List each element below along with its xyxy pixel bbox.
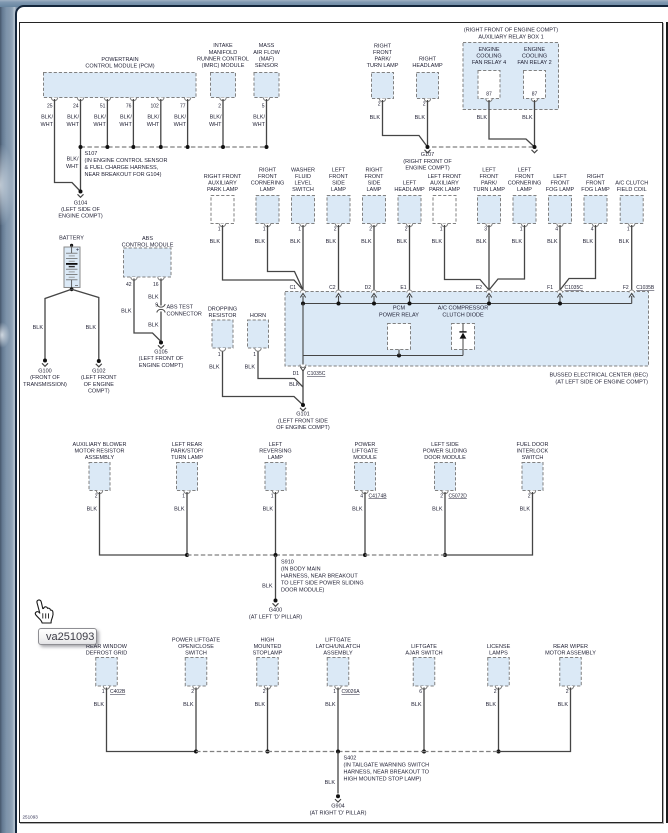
svg-text:(FRONT OF: (FRONT OF xyxy=(30,375,60,381)
svg-text:251093: 251093 xyxy=(23,815,39,820)
svg-text:BLK: BLK xyxy=(290,239,301,245)
svg-text:2: 2 xyxy=(95,494,98,500)
svg-text:POWERTRAIN: POWERTRAIN xyxy=(101,57,138,63)
ground G102 xyxy=(81,359,117,395)
svg-text:FRONT: FRONT xyxy=(258,174,278,180)
horn H1 xyxy=(245,313,269,370)
svg-text:POWER SLIDING: POWER SLIDING xyxy=(423,449,467,455)
svg-text:HORN: HORN xyxy=(250,313,266,319)
wire battery negative to G102 xyxy=(72,289,99,361)
svg-text:1: 1 xyxy=(182,494,185,500)
splice S402 xyxy=(336,750,430,783)
left front cornering lamp xyxy=(508,168,542,245)
svg-text:CORNERING: CORNERING xyxy=(251,181,285,187)
svg-text:REAR WIPER: REAR WIPER xyxy=(553,644,588,650)
svg-text:POWER RELAY: POWER RELAY xyxy=(379,313,419,319)
svg-text:WHT: WHT xyxy=(119,122,132,128)
wire right front side lamp to BEC D2 xyxy=(373,225,375,290)
application background top bar xyxy=(0,0,668,7)
svg-text:MODULE: MODULE xyxy=(353,455,377,461)
svg-text:BLK: BLK xyxy=(263,506,274,512)
wire BEC D1 to G101 xyxy=(302,370,304,405)
intake manifold runner control (IMRC) module xyxy=(197,43,249,128)
svg-text:(LEFT SIDE OF: (LEFT SIDE OF xyxy=(61,207,100,213)
svg-text:42: 42 xyxy=(126,282,132,288)
svg-text:DEFROST GRID: DEFROST GRID xyxy=(86,651,127,657)
svg-text:(AT LEFT 'D' PILLAR): (AT LEFT 'D' PILLAR) xyxy=(249,615,302,621)
svg-text:2: 2 xyxy=(218,104,221,110)
row3 ground bus dashed segment 2 xyxy=(276,554,366,556)
svg-text:ASSEMBLY: ASSEMBLY xyxy=(85,455,115,461)
svg-text:SIDE: SIDE xyxy=(332,181,345,187)
svg-text:FOG LAMP: FOG LAMP xyxy=(581,187,610,193)
high mounted stop lamp xyxy=(253,638,283,708)
svg-text:ENGINE: ENGINE xyxy=(524,47,545,53)
svg-text:COOLING: COOLING xyxy=(476,54,501,60)
BEC entry F1 connector C1035C xyxy=(547,285,583,304)
svg-text:C1035B: C1035B xyxy=(636,285,655,291)
svg-text:AUXILIARY BLOWER: AUXILIARY BLOWER xyxy=(73,442,127,448)
svg-text:2: 2 xyxy=(405,227,408,233)
svg-text:BLK: BLK xyxy=(121,309,132,315)
BEC exit D1 connector C1035C xyxy=(289,365,326,389)
liftgate ajar switch xyxy=(405,644,442,708)
svg-text:RIGHT: RIGHT xyxy=(365,168,383,174)
svg-text:ENGINE COMPT): ENGINE COMPT) xyxy=(405,165,449,171)
application background left strip xyxy=(0,0,16,833)
left side power sliding door module xyxy=(423,442,467,512)
svg-text:RESISTOR: RESISTOR xyxy=(208,313,236,319)
wire fan relay 4 pin 87 to ground xyxy=(489,100,535,147)
svg-text:BLK: BLK xyxy=(210,239,221,245)
svg-text:LEFT: LEFT xyxy=(332,168,346,174)
ground tie dashed link G107 xyxy=(432,146,535,148)
left front fog lamp xyxy=(546,174,575,245)
svg-text:BLK: BLK xyxy=(255,702,266,708)
BEC entry E2 xyxy=(476,285,492,304)
splice S910 xyxy=(274,553,364,594)
svg-text:RIGHT FRONT: RIGHT FRONT xyxy=(204,174,242,180)
svg-text:S107: S107 xyxy=(85,151,98,157)
svg-text:2: 2 xyxy=(566,689,569,695)
wire horn to G101 xyxy=(258,352,303,388)
svg-text:STOPLAMP: STOPLAMP xyxy=(253,651,283,657)
svg-text:BLK: BLK xyxy=(255,239,266,245)
wire fuel door interlock switch to row3 ground bus xyxy=(445,492,533,555)
svg-text:51: 51 xyxy=(100,104,106,110)
svg-text:HARNESS, NEAR BREAKOUT: HARNESS, NEAR BREAKOUT xyxy=(281,574,358,580)
svg-text:FAN RELAY 2: FAN RELAY 2 xyxy=(517,60,551,66)
power liftgate module xyxy=(352,442,387,512)
svg-text:FRONT: FRONT xyxy=(551,181,571,187)
svg-text:BLK: BLK xyxy=(486,702,497,708)
wire auxiliary blower motor resistor to row3 ground bus xyxy=(100,492,188,555)
wire left front fog lamp to BEC F1 xyxy=(559,225,561,290)
svg-text:BLK/: BLK/ xyxy=(120,115,132,121)
svg-text:AUXILIARY RELAY BOX 1: AUXILIARY RELAY BOX 1 xyxy=(478,35,543,41)
svg-text:D1: D1 xyxy=(293,371,300,377)
wire left front auxiliary park lamp to BEC E2 xyxy=(445,225,490,290)
svg-text:24: 24 xyxy=(73,104,79,110)
svg-text:AIR FLOW: AIR FLOW xyxy=(253,50,280,56)
svg-text:MOTOR RESISTOR: MOTOR RESISTOR xyxy=(75,449,125,455)
svg-text:RIGHT: RIGHT xyxy=(419,57,437,63)
svg-text:WHT: WHT xyxy=(66,122,79,128)
svg-text:HARNESS, NEAR BREAKOUT TO: HARNESS, NEAR BREAKOUT TO xyxy=(344,770,430,776)
svg-text:OF ENGINE COMPT): OF ENGINE COMPT) xyxy=(276,425,330,431)
wire ABS pin 42 to G105 xyxy=(121,279,161,342)
right front side lamp xyxy=(361,168,385,245)
svg-text:FRONT: FRONT xyxy=(586,181,606,187)
svg-text:LEFT SIDE: LEFT SIDE xyxy=(431,442,459,448)
battery B1 xyxy=(59,236,84,288)
svg-text:2: 2 xyxy=(494,689,497,695)
wire splice S910 to G400 xyxy=(262,555,275,601)
svg-text:NEAR BREAKOUT FOR G104): NEAR BREAKOUT FOR G104) xyxy=(85,172,162,178)
svg-text:BLK: BLK xyxy=(432,239,443,245)
svg-text:BLK/: BLK/ xyxy=(147,115,159,121)
svg-text:TURN LAMP: TURN LAMP xyxy=(367,63,399,69)
BEC entry C2 xyxy=(329,285,341,304)
wire left reversing lamp to splice S910 xyxy=(275,492,277,555)
svg-text:(AT RIGHT 'D' PILLAR): (AT RIGHT 'D' PILLAR) xyxy=(310,811,367,817)
svg-text:PARK LAMP: PARK LAMP xyxy=(207,187,238,193)
splice S107 bus xyxy=(79,145,269,178)
svg-text:1: 1 xyxy=(298,227,301,233)
svg-text:FRONT: FRONT xyxy=(515,174,535,180)
right front cornering lamp xyxy=(251,168,285,245)
svg-text:6: 6 xyxy=(419,689,422,695)
svg-text:1: 1 xyxy=(440,227,443,233)
fuel door interlock switch xyxy=(517,442,549,512)
svg-text:LAMP: LAMP xyxy=(517,187,532,193)
wire splice S402 to G904 xyxy=(325,752,338,794)
wire left front side lamp to BEC C2 xyxy=(338,225,340,290)
svg-text:BLK: BLK xyxy=(476,239,487,245)
svg-text:(IN TAILGATE WARNING SWITCH: (IN TAILGATE WARNING SWITCH xyxy=(344,763,430,769)
wire MAF pin 5 to S107 bus xyxy=(266,99,268,147)
svg-text:SIDE: SIDE xyxy=(368,181,381,187)
svg-text:FUEL DOOR: FUEL DOOR xyxy=(517,442,549,448)
left rear park/stop/turn lamp xyxy=(171,442,204,512)
svg-text:HEADLAMP: HEADLAMP xyxy=(412,63,443,69)
PCM pin 51 xyxy=(93,104,106,129)
wire ABS test connector to G105 xyxy=(148,312,161,343)
svg-text:MOUNTED: MOUNTED xyxy=(254,644,282,650)
svg-text:G105: G105 xyxy=(154,350,167,356)
svg-text:BLK: BLK xyxy=(33,325,44,331)
svg-text:WHT: WHT xyxy=(40,122,53,128)
wire right front park/turn lamp to G107 xyxy=(383,100,428,147)
svg-text:C9026A: C9026A xyxy=(342,689,361,695)
svg-text:BLK: BLK xyxy=(520,506,531,512)
svg-text:87: 87 xyxy=(532,92,538,98)
ground G101 xyxy=(276,403,330,431)
wire right front auxiliary park lamp to BEC C1 xyxy=(223,225,304,290)
svg-text:FIELD COIL: FIELD COIL xyxy=(617,187,647,193)
PCM pin 25 xyxy=(40,104,53,129)
svg-text:1: 1 xyxy=(271,494,274,500)
svg-text:BLK/: BLK/ xyxy=(41,115,53,121)
svg-text:G107: G107 xyxy=(421,152,434,158)
power liftgate open/close switch xyxy=(172,638,221,708)
wire IMRC pin 2 to S107 bus xyxy=(222,99,224,147)
svg-text:COOLING: COOLING xyxy=(522,54,547,60)
left front side lamp xyxy=(326,168,350,245)
engine cooling fan relay 2 xyxy=(517,47,551,121)
BEC entry E1 xyxy=(400,285,412,304)
svg-text:BLK: BLK xyxy=(148,323,159,329)
svg-text:DROPPING: DROPPING xyxy=(208,307,237,313)
svg-text:CONTROL MODULE (PCM): CONTROL MODULE (PCM) xyxy=(85,64,154,70)
svg-text:BLK: BLK xyxy=(558,702,569,708)
svg-text:LAMPS: LAMPS xyxy=(489,651,508,657)
svg-text:E1: E1 xyxy=(400,285,406,291)
svg-text:1: 1 xyxy=(333,689,336,695)
svg-text:TRANSMISSION): TRANSMISSION) xyxy=(23,382,67,388)
svg-text:BLK: BLK xyxy=(583,239,594,245)
svg-text:BLK: BLK xyxy=(183,702,194,708)
svg-text:16: 16 xyxy=(153,282,159,288)
svg-text:CORNERING: CORNERING xyxy=(508,181,542,187)
svg-text:BLK/: BLK/ xyxy=(253,115,265,121)
svg-text:ENGINE: ENGINE xyxy=(478,47,499,53)
right front fog lamp xyxy=(581,174,610,245)
a/c compressor clutch diode D1 xyxy=(438,306,488,356)
wire dropping resistor to G101 xyxy=(223,352,304,406)
wire left rear park/stop/turn lamp to row3 ground bus xyxy=(185,492,189,557)
svg-text:25: 25 xyxy=(47,104,53,110)
svg-text:FRONT: FRONT xyxy=(480,174,500,180)
BEC internal ground bus xyxy=(301,302,632,306)
svg-text:LEFT REAR: LEFT REAR xyxy=(172,442,202,448)
svg-text:(MAF): (MAF) xyxy=(259,56,274,62)
svg-text:HIGH MOUNTED STOP LAMP): HIGH MOUNTED STOP LAMP) xyxy=(344,777,422,783)
rear window defrost grid xyxy=(86,644,128,708)
svg-text:PARK/STOP/: PARK/STOP/ xyxy=(171,449,204,455)
rear wiper motor assembly xyxy=(545,644,596,708)
svg-text:76: 76 xyxy=(126,104,132,110)
svg-text:77: 77 xyxy=(180,104,186,110)
svg-text:BLK: BLK xyxy=(87,506,98,512)
BEC entry C1 xyxy=(290,285,306,304)
svg-text:BLK: BLK xyxy=(361,239,372,245)
BEC internal wire to D1 xyxy=(302,304,304,367)
svg-text:PARK/: PARK/ xyxy=(481,181,498,187)
svg-text:DOOR MODULE): DOOR MODULE) xyxy=(281,588,325,594)
svg-text:1: 1 xyxy=(520,227,523,233)
svg-text:LIFTGATE: LIFTGATE xyxy=(352,449,378,455)
wire right front cornering lamp to BEC C1 xyxy=(268,225,304,290)
svg-text:MASS: MASS xyxy=(259,43,275,49)
svg-text:POWER: POWER xyxy=(355,442,376,448)
wire washer fluid level switch to BEC C1 xyxy=(302,225,304,290)
ground G104 xyxy=(58,190,102,220)
svg-text:1: 1 xyxy=(102,689,105,695)
svg-text:REVERSING: REVERSING xyxy=(259,449,291,455)
svg-text:LEFT: LEFT xyxy=(482,168,496,174)
svg-text:2: 2 xyxy=(369,227,372,233)
svg-text:FRONT: FRONT xyxy=(329,174,349,180)
svg-text:WHT: WHT xyxy=(93,122,106,128)
wire power liftgate module to row3 ground bus xyxy=(363,492,367,557)
svg-text:PARK/: PARK/ xyxy=(374,57,391,63)
svg-text:ABS: ABS xyxy=(142,236,153,242)
svg-text:1: 1 xyxy=(218,352,221,358)
svg-text:C5072D: C5072D xyxy=(449,494,468,500)
svg-text:RUNNER CONTROL: RUNNER CONTROL xyxy=(197,56,249,62)
svg-text:102: 102 xyxy=(150,104,159,110)
svg-text:4: 4 xyxy=(555,227,558,233)
svg-text:CLUTCH DIODE: CLUTCH DIODE xyxy=(442,313,484,319)
svg-text:BLK/: BLK/ xyxy=(210,115,222,121)
svg-text:BLK: BLK xyxy=(209,364,220,370)
washer fluid level switch xyxy=(290,168,315,245)
svg-text:LATCH/UNLATCH: LATCH/UNLATCH xyxy=(316,644,361,650)
right headlamp xyxy=(412,57,443,122)
svg-text:(LEFT FRONT SIDE: (LEFT FRONT SIDE xyxy=(278,418,328,424)
license lamps xyxy=(486,644,511,708)
PCM pin 102 xyxy=(147,104,160,129)
svg-text:BLK: BLK xyxy=(352,506,363,512)
ground G107 right stud xyxy=(532,145,538,153)
wire license lamps to row4 ground bus xyxy=(497,688,501,754)
row4 ground bus dashed segment 4 xyxy=(424,751,499,753)
BEC entry F2 connector C1035B xyxy=(623,285,655,304)
svg-text:LIFTGATE: LIFTGATE xyxy=(325,638,351,644)
svg-text:F2: F2 xyxy=(623,285,629,291)
svg-text:S402: S402 xyxy=(344,756,357,762)
svg-text:(IN ENGINE CONTROL SENSOR: (IN ENGINE CONTROL SENSOR xyxy=(85,158,168,164)
svg-text:2: 2 xyxy=(191,689,194,695)
svg-text:AUXILIARY: AUXILIARY xyxy=(430,181,459,187)
svg-text:DOOR MODULE: DOOR MODULE xyxy=(424,455,466,461)
svg-text:SWITCH: SWITCH xyxy=(185,651,207,657)
svg-text:ASSEMBLY: ASSEMBLY xyxy=(323,651,353,657)
BEC entry D2 xyxy=(365,285,377,304)
svg-text:BATTERY: BATTERY xyxy=(59,236,84,242)
svg-text:TO LEFT SIDE POWER SLIDING: TO LEFT SIDE POWER SLIDING xyxy=(281,581,364,587)
auxiliary blower motor resistor assembly xyxy=(73,442,127,512)
svg-text:BLK: BLK xyxy=(477,115,488,121)
svg-text:SWITCH: SWITCH xyxy=(522,455,544,461)
tooltip va251093 xyxy=(38,628,97,646)
wire right headlamp to G107 xyxy=(427,100,429,147)
svg-text:CONNECTOR: CONNECTOR xyxy=(167,312,202,318)
svg-text:WHT: WHT xyxy=(252,122,265,128)
svg-text:2: 2 xyxy=(528,494,531,500)
svg-text:WHT: WHT xyxy=(209,122,222,128)
ground G904 xyxy=(310,794,367,816)
svg-text:4: 4 xyxy=(591,227,594,233)
second page edge line xyxy=(666,22,668,823)
wire PCM pin 102 to S107 bus xyxy=(160,99,162,147)
svg-text:1: 1 xyxy=(627,227,630,233)
svg-text:BLK: BLK xyxy=(94,702,105,708)
svg-text:FRONT: FRONT xyxy=(373,50,393,56)
svg-text:FLUID: FLUID xyxy=(295,174,311,180)
svg-text:1: 1 xyxy=(263,227,266,233)
svg-text:4: 4 xyxy=(360,494,363,500)
svg-text:MOTOR ASSEMBLY: MOTOR ASSEMBLY xyxy=(545,651,596,657)
svg-text:G101: G101 xyxy=(296,412,309,418)
svg-text:& FUEL CHARGE HARNESS,: & FUEL CHARGE HARNESS, xyxy=(85,165,159,171)
svg-text:LIFTGATE: LIFTGATE xyxy=(411,644,437,650)
svg-text:5: 5 xyxy=(262,104,265,110)
svg-text:WHT: WHT xyxy=(66,164,79,170)
PCM pin 24 xyxy=(66,104,79,129)
svg-text:INTERLOCK: INTERLOCK xyxy=(517,449,549,455)
ABS test connector pin 9 xyxy=(157,304,202,318)
svg-text:BLK: BLK xyxy=(148,294,159,300)
left front park/turn lamp xyxy=(473,168,505,245)
ABS control module xyxy=(122,236,174,288)
svg-text:E2: E2 xyxy=(476,285,482,291)
svg-text:OPEN/CLOSE: OPEN/CLOSE xyxy=(178,644,214,650)
svg-text:POWER LIFTGATE: POWER LIFTGATE xyxy=(172,638,221,644)
svg-text:(AT LEFT SIDE OF ENGINE COMPT): (AT LEFT SIDE OF ENGINE COMPT) xyxy=(555,379,648,385)
wire ABS pin 16 to ABS test connector xyxy=(148,279,161,309)
svg-text:FRONT: FRONT xyxy=(365,174,385,180)
left headlamp xyxy=(394,181,425,245)
svg-text:BLK/: BLK/ xyxy=(67,157,79,163)
svg-text:ENGINE COMPT): ENGINE COMPT) xyxy=(139,363,183,369)
svg-text:BLK: BLK xyxy=(262,584,273,590)
svg-text:RIGHT: RIGHT xyxy=(259,168,277,174)
engine cooling fan relay 4 xyxy=(472,47,506,121)
svg-text:PARK LAMP: PARK LAMP xyxy=(429,187,460,193)
svg-text:LICENSE: LICENSE xyxy=(487,644,511,650)
svg-text:A/C COMPRESSOR: A/C COMPRESSOR xyxy=(438,306,488,312)
row4 ground bus dashed segment 1 xyxy=(196,751,268,753)
svg-text:BLK: BLK xyxy=(245,364,256,370)
svg-text:LAMP: LAMP xyxy=(260,187,275,193)
wire PCM pin 24 to G104 through S107 xyxy=(66,99,81,192)
left front auxiliary park lamp xyxy=(428,174,462,245)
svg-text:BLK: BLK xyxy=(174,506,185,512)
wire a/c clutch field coil to BEC F2 xyxy=(631,225,633,290)
svg-text:(RIGHT FRONT OF: (RIGHT FRONT OF xyxy=(403,159,452,165)
svg-text:LAMP: LAMP xyxy=(268,455,283,461)
svg-text:C2: C2 xyxy=(329,285,336,291)
svg-text:(LEFT FRONT: (LEFT FRONT xyxy=(81,375,117,381)
svg-text:LEFT: LEFT xyxy=(553,174,567,180)
ground G105 xyxy=(139,341,184,369)
svg-text:F1: F1 xyxy=(547,285,553,291)
BEC internal relay/diode bus xyxy=(303,354,463,358)
svg-text:87: 87 xyxy=(486,92,492,98)
svg-text:3: 3 xyxy=(484,227,487,233)
svg-text:WHT: WHT xyxy=(174,122,187,128)
svg-text:RIGHT: RIGHT xyxy=(374,44,392,50)
PCM pin 76 xyxy=(119,104,132,129)
svg-text:BLK: BLK xyxy=(326,239,337,245)
right front auxiliary park lamp xyxy=(204,174,242,245)
svg-text:LEFT: LEFT xyxy=(518,168,532,174)
svg-text:G104: G104 xyxy=(74,200,87,206)
svg-text:INTAKE: INTAKE xyxy=(213,43,233,49)
row4 ground bus dashed segment 2 xyxy=(268,751,339,753)
svg-text:LAMP: LAMP xyxy=(367,187,382,193)
svg-text:1: 1 xyxy=(253,352,256,358)
wire fan relay 2 pin 87 to ground xyxy=(534,100,536,147)
svg-text:G100: G100 xyxy=(38,369,51,375)
svg-text:BLK: BLK xyxy=(86,325,97,331)
svg-text:A/C CLUTCH: A/C CLUTCH xyxy=(615,181,648,187)
svg-text:G904: G904 xyxy=(331,804,344,810)
svg-text:BLK: BLK xyxy=(370,115,381,121)
hand cursor xyxy=(30,598,56,628)
